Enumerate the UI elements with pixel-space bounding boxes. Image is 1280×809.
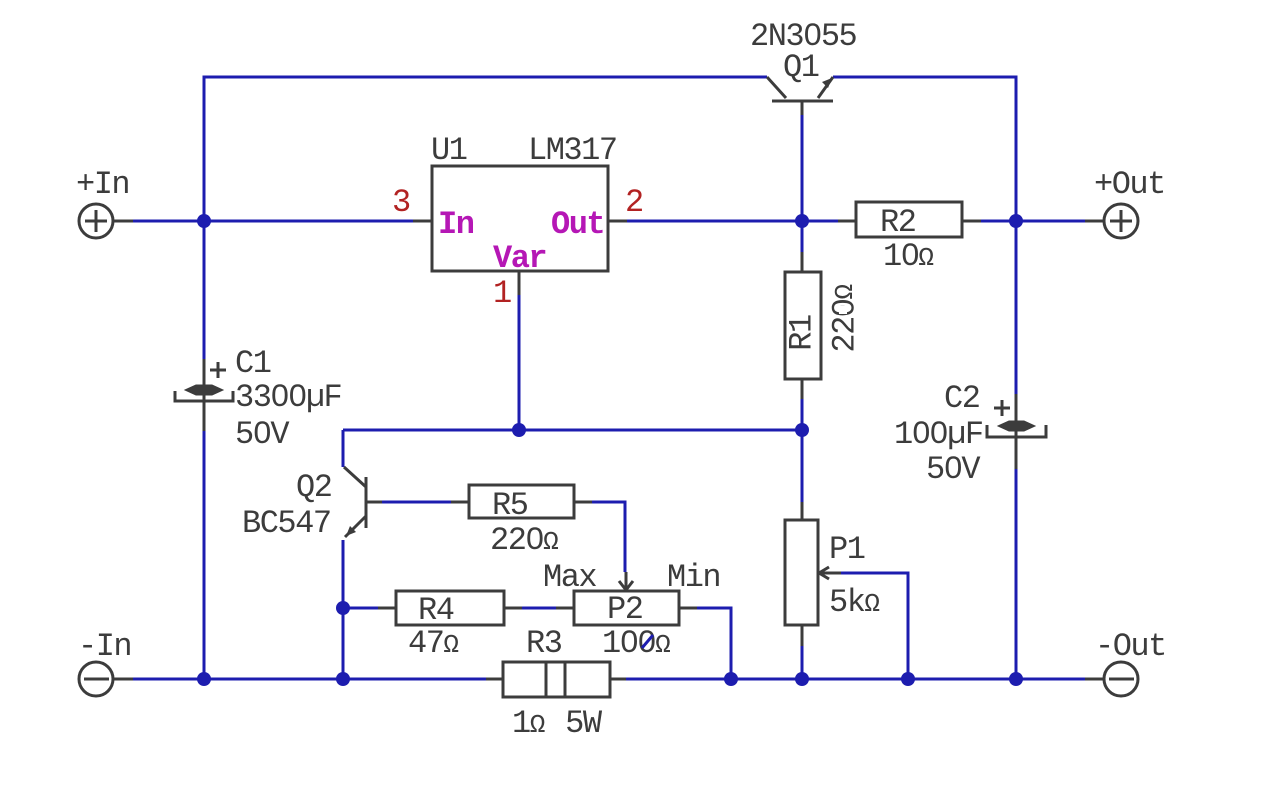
- svg-text:1: 1: [493, 275, 511, 312]
- svg-text:+Out: +Out: [1094, 166, 1165, 203]
- svg-text:+In: +In: [76, 166, 129, 203]
- svg-text:-In: -In: [78, 628, 131, 665]
- svg-text:LM317: LM317: [528, 132, 617, 169]
- svg-text:P2: P2: [607, 591, 642, 628]
- svg-text:220Ω: 220Ω: [490, 522, 558, 559]
- svg-text:In: In: [438, 206, 474, 243]
- svg-text:C2: C2: [944, 380, 979, 417]
- svg-text:R1: R1: [784, 315, 821, 351]
- svg-text:Var: Var: [493, 240, 546, 277]
- svg-text:Q2: Q2: [296, 469, 331, 506]
- svg-text:47Ω: 47Ω: [408, 625, 458, 662]
- svg-text:Max: Max: [543, 559, 596, 596]
- svg-text:U1: U1: [431, 132, 467, 169]
- svg-text:Out: Out: [551, 206, 604, 243]
- svg-text:R2: R2: [880, 204, 915, 241]
- svg-text:Min: Min: [667, 559, 720, 596]
- svg-text:5kΩ: 5kΩ: [829, 584, 879, 621]
- svg-text:3300µF: 3300µF: [235, 379, 341, 416]
- svg-text:BC547: BC547: [242, 505, 331, 542]
- svg-text:-Out: -Out: [1095, 628, 1166, 665]
- svg-text:1Ω 5W: 1Ω 5W: [512, 705, 603, 742]
- svg-text:C1: C1: [235, 345, 271, 382]
- svg-text:Q1: Q1: [783, 49, 819, 86]
- svg-text:P1: P1: [829, 531, 865, 568]
- svg-text:R3: R3: [526, 625, 562, 662]
- svg-text:220Ω: 220Ω: [827, 285, 864, 353]
- svg-text:100Ω: 100Ω: [602, 625, 670, 662]
- svg-text:3: 3: [392, 184, 410, 221]
- svg-text:R5: R5: [492, 487, 528, 524]
- svg-text:R4: R4: [418, 592, 454, 629]
- svg-text:2: 2: [625, 184, 643, 221]
